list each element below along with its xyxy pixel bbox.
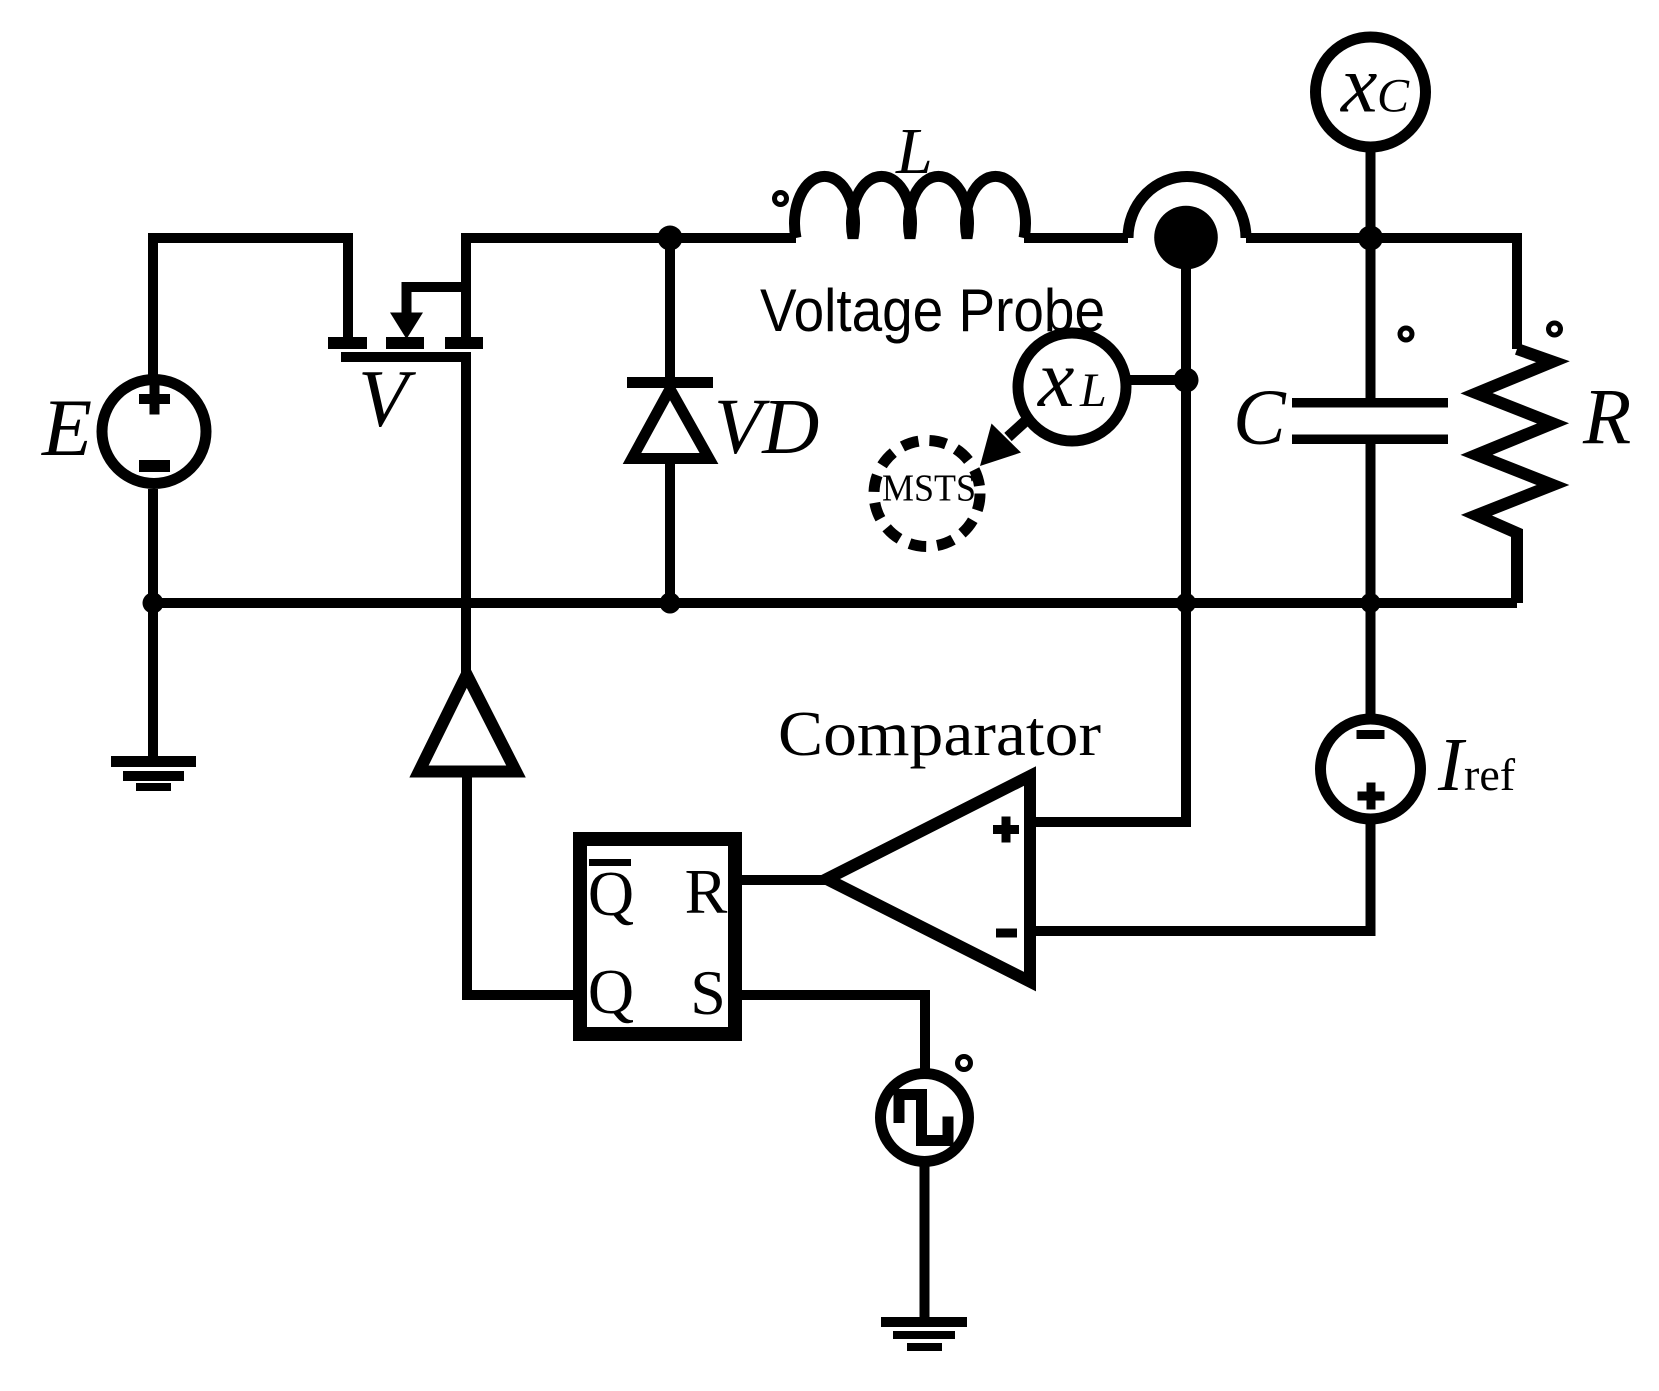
- junction node: top rail / xC: [1358, 226, 1383, 251]
- V gate arrow head: [390, 313, 423, 340]
- driver triangle: [419, 675, 516, 772]
- svg-text:ref: ref: [1464, 749, 1516, 800]
- current source Iref: [1321, 719, 1421, 819]
- svg-text:x: x: [1037, 333, 1074, 424]
- wire: xC to top rail: [1366, 147, 1376, 238]
- pin dot at resistor: [1549, 323, 1561, 335]
- diode VD top lead: [665, 238, 675, 378]
- V source contact bar: [328, 337, 367, 349]
- current source Iref top lead: [1366, 603, 1376, 720]
- wire: latch R to comparator output: [742, 875, 826, 885]
- clock source (square wave): [881, 1074, 969, 1162]
- wire: top rail from probe to xC node and resistor: [1246, 238, 1517, 349]
- svg-text:C: C: [1233, 375, 1287, 462]
- V gate contact bar: [386, 337, 424, 349]
- arrow from xL to MSTS: [980, 417, 1030, 466]
- svg-text:C: C: [1377, 70, 1410, 123]
- V drain contact bar: [445, 337, 483, 349]
- pin dot at capacitor: [1400, 328, 1412, 340]
- svg-text:Q: Q: [588, 956, 634, 1027]
- comparator U1: [827, 776, 1030, 982]
- pin dot at clock source: [958, 1057, 971, 1070]
- V gate arrow shaft: [402, 287, 412, 322]
- svg-text:R: R: [1582, 375, 1631, 462]
- wire: comparator - input to Iref: [1030, 820, 1371, 931]
- wire: current probe to comparator + input: [1030, 268, 1186, 822]
- current probe arc: [1128, 177, 1246, 239]
- junction node: xL / probe wire: [1174, 368, 1199, 393]
- wire: E negative lead to ground: [148, 489, 158, 756]
- svg-text:I: I: [1437, 723, 1467, 807]
- junction node: top rail / diode: [658, 226, 683, 251]
- wire: inductor to current probe: [1024, 233, 1128, 243]
- voltage source E: [102, 380, 206, 484]
- capacitor C bottom lead: [1366, 444, 1376, 603]
- svg-text:R: R: [685, 856, 728, 927]
- inductor L: [795, 176, 1026, 238]
- junction node: rail / capacitor: [1361, 593, 1381, 613]
- resistor R zigzag: [1477, 349, 1554, 603]
- wire: latch S to clock source: [742, 995, 925, 1073]
- pin dot at inductor: [775, 193, 787, 205]
- diode VD: [627, 377, 713, 459]
- current probe dot: [1154, 206, 1218, 270]
- svg-text:Comparator: Comparator: [778, 698, 1101, 769]
- ground (clock): [881, 1317, 967, 1351]
- svg-text:x: x: [1340, 39, 1377, 130]
- V gate wire to drain lead: [402, 282, 467, 292]
- transistor V (MOSFET): [328, 287, 483, 362]
- label Qbar: [588, 858, 634, 929]
- wire: xL to probe node: [1126, 375, 1186, 385]
- wire: clock source to ground: [920, 1162, 930, 1317]
- svg-text:L: L: [895, 115, 933, 188]
- junction node: rail / E: [143, 593, 164, 614]
- ground (E): [111, 756, 196, 791]
- svg-text:VD: VD: [714, 384, 819, 471]
- svg-text:E: E: [41, 382, 92, 473]
- svg-text:S: S: [690, 957, 726, 1028]
- svg-text:MSTS: MSTS: [882, 468, 976, 510]
- comparator - mark: [996, 929, 1017, 938]
- svg-text:Q: Q: [588, 858, 634, 929]
- probe xC: [1316, 37, 1426, 147]
- diode VD bottom lead: [665, 458, 675, 603]
- bottom rail: [153, 598, 1517, 608]
- svg-text:V: V: [358, 353, 416, 444]
- V channel bar: [341, 352, 471, 362]
- svg-text:L: L: [1079, 364, 1107, 417]
- MSTS dashed circle: [874, 441, 980, 547]
- capacitor C: [1292, 398, 1448, 444]
- junction node: rail / diode: [660, 593, 681, 614]
- SR latch box: [580, 839, 735, 1034]
- wire: triangle input from latch Q: [467, 772, 573, 996]
- junction node: rail / probe vertical: [1176, 593, 1196, 613]
- probe xL: [1018, 333, 1126, 441]
- wire: E positive lead + top rail to V source: [153, 238, 348, 378]
- wire: below channel down to driver triangle: [461, 357, 471, 676]
- capacitor C top lead: [1366, 238, 1376, 398]
- wire: V drain lead + top rail to inductor: [466, 238, 796, 338]
- comparator + mark: [993, 817, 1019, 843]
